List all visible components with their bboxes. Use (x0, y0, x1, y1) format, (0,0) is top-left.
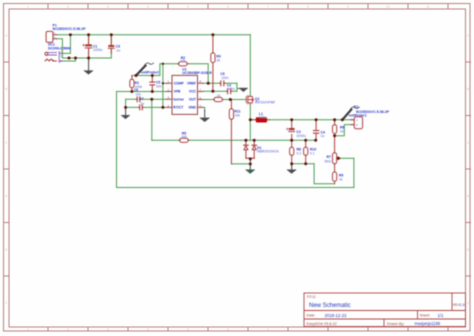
capacitor C8 labels (220, 72, 228, 80)
inductor L1 labels (259, 112, 267, 120)
wire C3 bottom riser (110, 49, 112, 58)
connector P2 (351, 117, 363, 129)
wire R11 bottom to D1 node (231, 163, 250, 165)
wire sense ground row (292, 163, 314, 165)
svg-text:C: C (467, 141, 469, 145)
frame column ticks bottom (48, 327, 448, 332)
svg-text:0.1: 0.1 (297, 151, 302, 155)
svg-text:10k: 10k (180, 59, 186, 63)
svg-text:10k: 10k (234, 113, 240, 117)
svg-text:Sheet:: Sheet: (420, 314, 431, 318)
ground D1 (246, 166, 255, 174)
svg-text:E: E (467, 248, 469, 252)
wire output rail (250, 119, 353, 121)
wire input ground rail (62, 57, 111, 59)
svg-text:MBR20100CK: MBR20100CK (257, 150, 280, 154)
frame zone letters (5, 34, 469, 305)
wire D1 riser (249, 120, 251, 141)
diode D1 MBR20100 (244, 140, 257, 161)
svg-text:IRFZ44VPBF: IRFZ44VPBF (255, 100, 275, 104)
wire OUT row to R4 (203, 99, 213, 101)
svg-text:10: 10 (217, 94, 221, 98)
resistor R10 labels (310, 148, 316, 156)
svg-text:1k: 1k (340, 130, 344, 134)
dc jack DC1 labels (48, 43, 71, 51)
capacitor C1 (83, 35, 92, 58)
wire P2 pin2 path (335, 125, 353, 136)
ground C6 C7 (121, 110, 130, 119)
resistor R4 label (217, 94, 221, 98)
wire VCC row (203, 90, 237, 92)
wire C6 C7 ground riser (125, 99, 127, 109)
svg-text:Isense: Isense (173, 98, 184, 102)
capacitor C1 labels (93, 44, 103, 52)
svg-text:2k: 2k (216, 58, 220, 62)
svg-text:GND: GND (188, 106, 196, 110)
svg-text:100n: 100n (221, 76, 228, 80)
svg-text:VFB: VFB (174, 90, 181, 94)
wire C3 top lead (110, 35, 112, 45)
wire pin5 GND path (203, 107, 205, 111)
svg-text:VCC: VCC (189, 90, 197, 94)
capacitor C2 (286, 120, 294, 140)
wire feedback riser right (353, 158, 355, 187)
resistor R6 labels (340, 126, 345, 134)
wire C1 bottom lead (88, 48, 90, 58)
resistor R11 (229, 100, 233, 164)
wire VFB row (117, 91, 167, 93)
svg-text:EasyEDA V5.8.22: EasyEDA V5.8.22 (307, 322, 337, 326)
svg-text:masjanja1186: masjanja1186 (415, 321, 441, 326)
wire R1 C5 top node (132, 75, 160, 77)
svg-text:5kΩ: 5kΩ (325, 159, 332, 163)
resistor R1 labels (135, 81, 143, 89)
svg-text:New Schematic: New Schematic (309, 303, 351, 309)
svg-text:B: B (467, 87, 469, 91)
resistor R3 (211, 35, 215, 91)
resistor R4 (213, 97, 223, 101)
svg-text:1.0: 1.0 (460, 303, 465, 307)
svg-text:10n: 10n (156, 84, 162, 88)
potentiometer R7 labels (325, 155, 332, 163)
wire sense row right (189, 139, 316, 141)
resistor R10 (304, 140, 308, 164)
wire R9 return riser (314, 164, 335, 184)
resistor R5 (179, 138, 189, 142)
wire RT/CT row (126, 106, 167, 108)
wire Q1 source to L1 node (249, 105, 251, 120)
capacitor C3 labels (116, 45, 121, 53)
capacitor C5 (150, 76, 155, 92)
ground C8 C4 arrow (240, 88, 247, 91)
resistor R9 (333, 172, 337, 184)
probe voltProbe2 label (141, 70, 159, 74)
op-amp U1 pin names (173, 82, 197, 110)
wire Q1 drain riser (249, 35, 251, 95)
resistor R6 (333, 120, 337, 136)
wire Isense drop to sense line (151, 99, 153, 140)
capacitor C4 (VCC bypass) (226, 89, 231, 94)
wire top rail (57, 34, 251, 36)
transistor Q1 IRFZ44 (246, 95, 253, 104)
frame column ticks top (48, 4, 448, 10)
wire P1 pin2 to bottom rail (57, 39, 63, 58)
wire DC1 tip to top rail (64, 35, 71, 54)
title block frame (304, 293, 466, 327)
capacitor C4 labels (227, 83, 235, 91)
wire C1 ground stem (88, 58, 90, 60)
svg-text:0.1: 0.1 (310, 151, 315, 155)
ground R8 R10 (287, 166, 296, 174)
svg-text:1000u: 1000u (296, 134, 306, 138)
resistor R3 labels (216, 55, 221, 63)
ground input (84, 60, 93, 74)
wire VREF row (203, 82, 237, 84)
title block texts (307, 295, 465, 326)
wire D1 anode to ground (249, 161, 251, 166)
resistor R11 labels (234, 110, 240, 118)
resistor R8 labels (297, 148, 302, 156)
capacitor C5 labels (156, 81, 162, 89)
diode D1 labels (257, 146, 280, 154)
svg-text:Drawn By:: Drawn By: (387, 322, 405, 326)
op-amp U1 pins (167, 83, 204, 107)
capacitor C6 labels (134, 88, 141, 96)
svg-text:A: A (467, 34, 469, 38)
resistor R9 labels (339, 174, 344, 182)
svg-text:300: 300 (181, 135, 187, 139)
svg-text:C: C (5, 141, 7, 145)
wire C8 ground jog (237, 83, 244, 91)
connector P1 labels (53, 24, 87, 32)
svg-text:OUT: OUT (189, 98, 197, 102)
svg-text:WJ2EDGVC-5.08-2P: WJ2EDGVC-5.08-2P (53, 27, 87, 31)
frame row ticks right (466, 62, 471, 276)
svg-text:1u: 1u (321, 134, 325, 138)
svg-text:DC099-2.5MM: DC099-2.5MM (48, 46, 71, 50)
svg-text:B: B (5, 87, 7, 91)
resistor R1 (130, 76, 134, 92)
wire Isense row (126, 98, 167, 100)
capacitor C4 output (314, 120, 319, 141)
svg-text:voltProbe2: voltProbe2 (141, 70, 159, 74)
svg-text:D: D (467, 194, 469, 198)
inductor L1 (250, 118, 269, 122)
wire R7 wiper to riser (340, 157, 354, 159)
op-amp U1 pin numbers (167, 80, 201, 108)
wire R4 to gate (223, 99, 246, 101)
svg-text:100u: 100u (259, 115, 267, 119)
resistor R8 (290, 140, 294, 164)
svg-text:1u: 1u (140, 101, 144, 105)
svg-text:1000u: 1000u (93, 48, 103, 52)
wire feedback bottom run (117, 187, 354, 189)
wire R2 right to VREF (189, 64, 208, 84)
svg-text:P2: P2 (354, 105, 358, 109)
junction dots (68, 33, 344, 165)
connector P1 (46, 31, 57, 42)
svg-text:UC3843BP-SO8-R: UC3843BP-SO8-R (182, 71, 212, 75)
op-amp U1 UC3843 body (172, 75, 198, 114)
resistor R2 (178, 62, 189, 66)
wire C1 top lead (88, 35, 90, 45)
capacitor C7 (139, 105, 144, 110)
probe voltProbe1 label (349, 114, 367, 118)
op-amp U1 labels (182, 67, 212, 75)
capacitor C2 labels (296, 130, 306, 138)
capacitor C4 output labels (321, 130, 326, 138)
svg-text:100n: 100n (228, 87, 235, 91)
wire sense row left (152, 139, 179, 141)
wire riser to R2 row (160, 64, 178, 76)
resistor R2 labels (180, 56, 186, 63)
connector P2 labels (354, 105, 390, 114)
svg-text:1k: 1k (339, 177, 343, 181)
capacitor C3 (108, 35, 114, 54)
svg-text:VREF: VREF (187, 82, 196, 86)
capacitor C8 (220, 81, 225, 86)
svg-text:E: E (5, 248, 7, 252)
svg-text:10n: 10n (136, 92, 142, 96)
potentiometer R7 (333, 136, 340, 172)
svg-text:RT/CT: RT/CT (173, 106, 184, 110)
capacitor C7 labels (140, 97, 145, 105)
svg-text:1/1: 1/1 (438, 313, 445, 318)
resistor R5 labels (181, 132, 187, 139)
wire DC1 sleeve to rail (64, 58, 76, 61)
wire R2 vertical to RT/CT (162, 64, 164, 108)
probe voltProbe1 (342, 107, 359, 120)
dc jack DC1 (47, 52, 64, 63)
svg-text:COMP: COMP (174, 82, 185, 86)
frame row ticks left (4, 62, 10, 276)
svg-text:D: D (5, 194, 7, 198)
transistor Q1 labels (255, 97, 275, 105)
svg-text:1u: 1u (116, 48, 120, 52)
capacitor C6 (136, 97, 141, 102)
wire ground stem below R8 (291, 164, 293, 167)
wire feedback drop (116, 92, 118, 188)
svg-text:A: A (5, 34, 7, 38)
wire COMP stub (163, 82, 167, 84)
svg-text:2018-12-22: 2018-12-22 (325, 313, 348, 318)
probe voltProbe2 (136, 63, 154, 76)
svg-text:WJ2EDGVC-5.08-2P: WJ2EDGVC-5.08-2P (356, 110, 390, 114)
ground U1 pin5 (201, 111, 209, 122)
svg-text:TITLE:: TITLE: (307, 295, 317, 299)
svg-text:Date:: Date: (307, 314, 316, 318)
